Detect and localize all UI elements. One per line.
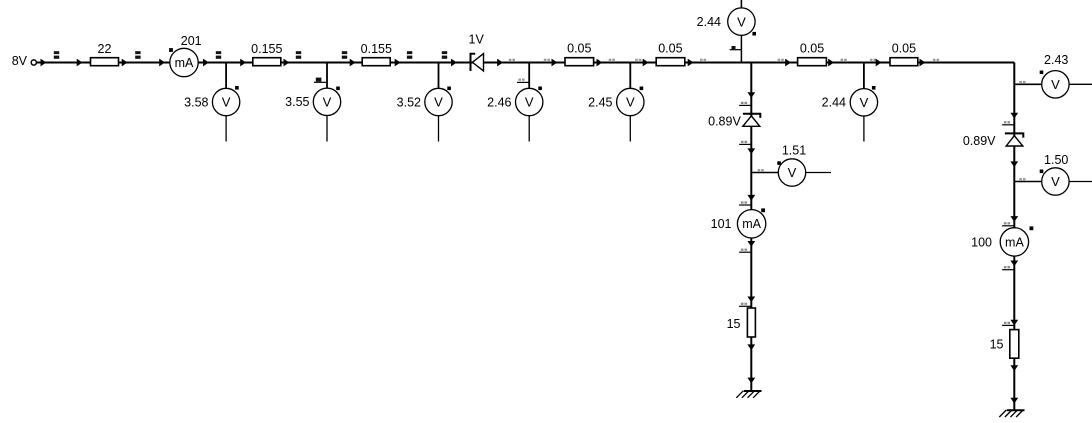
wire arrow bbox=[785, 59, 791, 67]
wire mark bbox=[1019, 81, 1025, 83]
voltmeter V1 reading 3.58 bbox=[184, 86, 240, 142]
wire arrow bbox=[1010, 320, 1018, 326]
node J: tap to voltmeter V10 bbox=[1014, 181, 1041, 183]
voltmeter V6 reading 2.44 bbox=[697, 0, 756, 36]
node I: tap to voltmeter V9 bbox=[1014, 83, 1041, 85]
diode D1 drop 1V bbox=[469, 33, 485, 72]
ground bbox=[999, 410, 1024, 417]
wire arrow bbox=[552, 59, 558, 67]
wire mark bbox=[933, 59, 939, 61]
voltmeter V7 reading 2.44 bbox=[822, 86, 878, 142]
wire mark bbox=[870, 59, 876, 61]
svg-text:2.46: 2.46 bbox=[487, 95, 511, 109]
wire arrow bbox=[643, 59, 649, 67]
voltmeter V9 reading 2.43 bbox=[1040, 53, 1092, 98]
wire arrow bbox=[1010, 398, 1018, 404]
wire arrow bbox=[1010, 161, 1018, 167]
node: 8V source terminal bbox=[12, 54, 37, 68]
wire arrow bbox=[747, 297, 755, 303]
wire arrow bbox=[350, 59, 356, 67]
resistor R5 0.05 bbox=[656, 42, 685, 66]
svg-text:1.51: 1.51 bbox=[782, 143, 806, 157]
wire mark bbox=[135, 51, 140, 59]
svg-text:2.44: 2.44 bbox=[822, 96, 846, 110]
node F: tap up to voltmeter V6 bbox=[740, 35, 742, 62]
wire: main horizontal bus from source to right corner bbox=[37, 62, 1015, 64]
node C: tap to voltmeter V3 bbox=[438, 63, 440, 89]
wire arrow bbox=[395, 59, 401, 67]
wire arrow bbox=[1010, 261, 1018, 267]
svg-text:1.50: 1.50 bbox=[1044, 153, 1068, 167]
voltmeter V8 reading 1.51 bbox=[777, 143, 831, 186]
pin mark bbox=[314, 78, 327, 83]
svg-text:0.89V: 0.89V bbox=[963, 134, 996, 148]
resistor R8 15 bbox=[727, 308, 756, 337]
wire mark bbox=[700, 59, 706, 61]
wire mark bbox=[342, 51, 347, 59]
wire arrow bbox=[77, 59, 83, 67]
svg-text:0.05: 0.05 bbox=[892, 42, 916, 56]
wire arrow bbox=[920, 59, 926, 67]
voltmeter V4 reading 2.46 bbox=[487, 87, 543, 142]
wire arrow bbox=[688, 59, 694, 67]
pin mark bbox=[1002, 121, 1014, 125]
node A: tap to voltmeter V1 bbox=[225, 63, 227, 89]
svg-text:2.44: 2.44 bbox=[697, 15, 721, 29]
svg-text:1V: 1V bbox=[469, 33, 485, 47]
zener diode D3 drop 0.89V bbox=[963, 133, 1023, 148]
wire mark bbox=[216, 51, 221, 59]
node H: tap to voltmeter V8 bbox=[751, 172, 778, 174]
resistor R7 0.05 bbox=[890, 42, 918, 66]
node E: tap to voltmeter V5 bbox=[629, 63, 631, 89]
wire arrow bbox=[876, 59, 882, 67]
voltmeter V3 reading 3.52 bbox=[397, 87, 453, 142]
wire arrow bbox=[747, 378, 755, 384]
wire arrow bbox=[747, 148, 755, 154]
resistor R9 15 bbox=[990, 330, 1019, 359]
pin mark bbox=[739, 303, 751, 307]
ground bbox=[736, 391, 761, 398]
voltmeter V10 reading 1.50 bbox=[1040, 153, 1092, 195]
wire arrow bbox=[828, 59, 834, 67]
svg-text:22: 22 bbox=[98, 42, 112, 56]
wire mark bbox=[1019, 178, 1025, 180]
svg-text:0.155: 0.155 bbox=[251, 42, 282, 56]
wire arrow bbox=[284, 59, 290, 67]
svg-text:0.05: 0.05 bbox=[567, 42, 591, 56]
pin mark bbox=[739, 249, 751, 253]
wire arrow bbox=[1010, 216, 1018, 222]
node G: tap to voltmeter V7 bbox=[863, 63, 865, 89]
wire arrow bbox=[203, 59, 209, 67]
ammeter A2 reading 101 mA bbox=[711, 208, 766, 238]
wire arrow bbox=[747, 92, 755, 98]
pin mark bbox=[730, 46, 742, 50]
wire arrow bbox=[1010, 113, 1018, 119]
wire mark bbox=[544, 59, 550, 61]
pin mark bbox=[517, 79, 529, 83]
pin mark bbox=[739, 141, 751, 145]
ammeter A3 reading 100 mA bbox=[971, 226, 1033, 256]
wire mark bbox=[54, 51, 59, 59]
wire arrow bbox=[747, 241, 755, 247]
svg-text:3.52: 3.52 bbox=[397, 95, 421, 109]
node D: tap to voltmeter V4 bbox=[528, 63, 530, 89]
svg-text:8V: 8V bbox=[12, 54, 28, 68]
voltmeter V5 reading 2.45 bbox=[588, 87, 644, 142]
svg-text:0.89V: 0.89V bbox=[708, 115, 741, 129]
wire arrow bbox=[597, 59, 603, 67]
wire mark bbox=[442, 51, 447, 59]
svg-text:100: 100 bbox=[971, 235, 992, 249]
ammeter A1 reading 201 mA bbox=[169, 34, 202, 77]
wire mark bbox=[296, 51, 301, 59]
wire arrow bbox=[41, 59, 47, 67]
resistor R4 0.05 bbox=[565, 42, 594, 66]
pin mark bbox=[1002, 266, 1014, 270]
wire: left vertical branch bbox=[750, 63, 752, 392]
pin mark bbox=[1002, 322, 1014, 326]
wire mark bbox=[407, 51, 412, 59]
wire mark bbox=[635, 59, 641, 61]
resistor R6 0.05 bbox=[798, 42, 827, 66]
pin mark bbox=[739, 102, 751, 106]
svg-text:0.155: 0.155 bbox=[361, 42, 392, 56]
svg-text:0.05: 0.05 bbox=[658, 42, 682, 56]
wire arrow bbox=[747, 344, 755, 350]
wire mark bbox=[758, 169, 764, 171]
svg-text:15: 15 bbox=[990, 337, 1004, 351]
resistor R2 0.155 bbox=[251, 42, 282, 66]
wire: right vertical branch bbox=[1013, 63, 1015, 411]
pin mark bbox=[739, 201, 751, 205]
svg-text:101: 101 bbox=[711, 217, 732, 231]
wire mark bbox=[778, 59, 784, 61]
pin mark bbox=[1002, 222, 1014, 226]
wire arrow bbox=[240, 59, 246, 67]
svg-text:3.58: 3.58 bbox=[184, 95, 208, 109]
wire arrow bbox=[497, 59, 503, 67]
svg-text:2.43: 2.43 bbox=[1044, 53, 1068, 67]
wire arrow bbox=[122, 59, 128, 67]
wire arrow bbox=[747, 195, 755, 201]
svg-text:201: 201 bbox=[181, 34, 202, 48]
svg-text:0.05: 0.05 bbox=[800, 42, 824, 56]
svg-text:2.45: 2.45 bbox=[588, 95, 612, 109]
node B: tap to voltmeter V2 bbox=[326, 63, 328, 89]
resistor R3 0.155 bbox=[361, 42, 392, 66]
wire mark bbox=[841, 59, 847, 61]
wire arrow bbox=[159, 59, 165, 67]
zener diode D2 drop 0.89V bbox=[708, 114, 760, 129]
wire mark bbox=[609, 59, 615, 61]
wire arrow bbox=[451, 59, 457, 67]
voltmeter V2 reading 3.55 bbox=[285, 87, 341, 142]
resistor R1 22 bbox=[91, 42, 119, 66]
svg-text:3.55: 3.55 bbox=[285, 95, 309, 109]
wire arrow bbox=[1010, 365, 1018, 371]
svg-text:15: 15 bbox=[727, 317, 741, 331]
wire mark bbox=[509, 59, 515, 61]
